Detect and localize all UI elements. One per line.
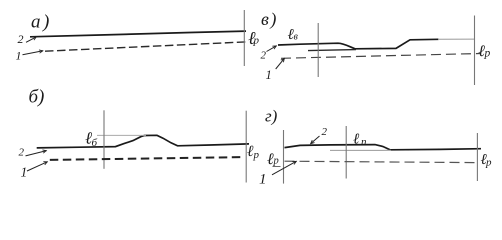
measure vertical lv left (panel v) xyxy=(317,23,319,77)
line 1 dashed datum (panel g) xyxy=(285,161,477,162)
boundary vertical (panel a right) xyxy=(243,10,245,66)
svg-text:в: в xyxy=(294,32,299,43)
line 2 surface with low spot (panel v) xyxy=(278,39,439,49)
svg-text:в): в) xyxy=(261,9,276,30)
svg-text:2: 2 xyxy=(18,32,24,46)
line 2 surface with hump (panel b) xyxy=(37,135,249,148)
measure vertical lb left (panel b) xyxy=(103,110,105,169)
leader to line 1 (panel v) xyxy=(276,58,285,69)
leader to line 2 (panel b) xyxy=(26,151,47,156)
lower edge line of low spot (panel v) xyxy=(308,50,356,51)
line 2 (rail surface, panel a) xyxy=(30,31,246,37)
measure vertical middle (panel g) xyxy=(345,126,347,179)
svg-text:б): б) xyxy=(29,87,45,108)
boundary vertical (panel g left) xyxy=(283,130,285,184)
leader to line 1 (panel a) xyxy=(23,51,44,55)
svg-text:б: б xyxy=(92,137,98,149)
thin reference line at hump crest (panel b) xyxy=(97,134,146,136)
svg-text:р: р xyxy=(485,157,492,169)
leader to line 1 (panel g) xyxy=(272,161,297,175)
svg-text:1: 1 xyxy=(16,49,22,63)
svg-text:а): а) xyxy=(31,12,49,33)
svg-text:р: р xyxy=(253,35,260,47)
svg-text:р: р xyxy=(273,155,279,166)
line 2 surface with step (panel g) xyxy=(285,145,482,150)
boundary vertical (panel b right) xyxy=(245,111,247,183)
line 1 dashed datum bold (panel b) xyxy=(50,157,245,160)
svg-text:р: р xyxy=(484,48,491,60)
svg-text:п: п xyxy=(361,136,367,148)
thin extension line to right boundary (panel v) xyxy=(438,38,475,40)
leader to line 2 (panel a) xyxy=(26,37,37,43)
svg-text:1: 1 xyxy=(259,172,267,188)
leader to line 1 (panel b) xyxy=(27,162,48,171)
leader to line 2 (panel g) xyxy=(311,136,320,144)
svg-text:г): г) xyxy=(265,107,278,126)
svg-text:ℓ: ℓ xyxy=(353,132,359,148)
thin lower step line (panel g) xyxy=(330,149,391,151)
boundary vertical (panel v right) xyxy=(474,16,476,86)
line 1 dashed datum (panel v) xyxy=(281,54,480,59)
svg-text:2: 2 xyxy=(261,49,267,61)
svg-text:1: 1 xyxy=(21,165,28,180)
svg-text:2: 2 xyxy=(322,126,328,138)
svg-text:р: р xyxy=(253,149,260,161)
svg-text:2: 2 xyxy=(19,147,25,159)
leader to line 2 (panel v) xyxy=(267,46,277,52)
underline under lp (panel g left) xyxy=(273,166,281,168)
line 1 dashed datum (panel a) xyxy=(45,42,248,51)
boundary vertical (panel g right) xyxy=(476,133,478,181)
svg-text:1: 1 xyxy=(266,68,272,82)
